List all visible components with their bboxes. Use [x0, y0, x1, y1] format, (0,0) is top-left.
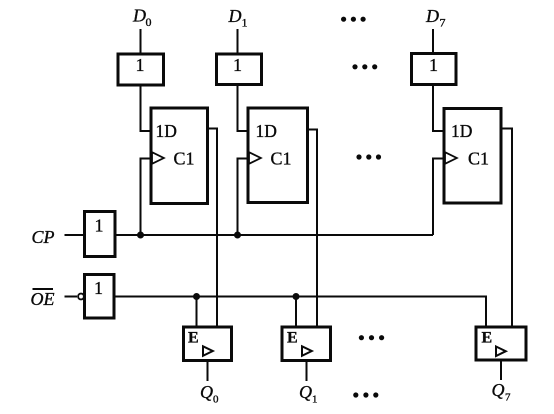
wire Q0 output — [207, 361, 209, 382]
svg-text:1: 1 — [312, 394, 318, 406]
ellipsis E-buffer row — [359, 335, 384, 340]
wire OE to E0 enable — [196, 297, 198, 328]
wire FF1 Q output to E buffer — [308, 130, 318, 328]
flip-flop FF1 — [248, 108, 308, 203]
ellipsis buffer row — [352, 64, 377, 69]
svg-text:C1: C1 — [271, 149, 292, 169]
ellipsis flip-flop row — [356, 154, 381, 159]
junction dot CP/FF1 clock — [234, 232, 241, 239]
svg-text:E: E — [482, 330, 493, 347]
clock edge triangle (FF7) — [445, 152, 457, 164]
triangle symbol (E0) — [203, 346, 213, 356]
svg-text:CP: CP — [32, 227, 55, 247]
wire D7 to buffer — [432, 29, 434, 55]
svg-text:Q: Q — [200, 382, 213, 402]
wire Q7 output — [500, 360, 502, 380]
flip-flop FF7 — [444, 109, 501, 204]
svg-text:1D: 1D — [156, 121, 177, 141]
buffer B1 "1" — [217, 54, 262, 85]
tri-state buffer E7 — [476, 327, 526, 360]
svg-text:C1: C1 — [174, 149, 195, 169]
svg-text:C1: C1 — [468, 149, 489, 169]
svg-text:1: 1 — [94, 278, 103, 298]
inverter bubble OE — [78, 294, 84, 300]
wire buffer1 output to 1D input — [238, 84, 250, 131]
buffer OE "1" — [85, 275, 115, 319]
clock edge triangle (FF1) — [249, 152, 261, 164]
node D0 — [132, 6, 152, 30]
wire buffer7 output to 1D input — [433, 84, 445, 131]
wire OE to E1 enable — [295, 297, 297, 328]
wire CP distribution line — [115, 234, 433, 236]
triangle symbol (E1) — [302, 346, 312, 356]
svg-text:1D: 1D — [256, 121, 277, 141]
triangle symbol (E7) — [496, 347, 506, 357]
svg-text:D: D — [425, 6, 439, 26]
svg-text:7: 7 — [440, 16, 446, 30]
svg-text:E: E — [287, 330, 298, 347]
flip-flop FF0 — [151, 108, 208, 204]
wire clock stub FF0 down to CP line — [141, 159, 152, 236]
wire clock stub FF7 (corner from CP line) — [433, 159, 444, 236]
wire FF7 Q output to E buffer — [501, 129, 512, 328]
buffer B7 "1" — [412, 54, 457, 85]
svg-text:1: 1 — [242, 16, 248, 30]
buffer CP "1" — [85, 212, 116, 257]
wire OE distribution line — [114, 297, 486, 328]
junction dot CP/FF0 clock — [137, 232, 144, 239]
svg-text:1: 1 — [429, 55, 438, 75]
wire D0 to buffer — [140, 29, 142, 55]
node Q0 — [200, 382, 219, 406]
svg-text:D: D — [228, 6, 242, 26]
svg-text:1D: 1D — [451, 121, 472, 141]
ellipsis Q row — [353, 392, 378, 397]
tri-state buffer E1 — [282, 327, 331, 361]
node OE (active low) — [31, 289, 55, 309]
junction dot OE/E1 — [293, 293, 300, 300]
wire FF0 Q output to E buffer — [208, 129, 218, 328]
svg-text:Q: Q — [299, 382, 312, 402]
buffer B0 "1" — [118, 54, 164, 85]
wire clock stub FF1 down to CP line — [238, 159, 249, 236]
svg-text:1: 1 — [95, 216, 104, 236]
svg-text:OE: OE — [31, 289, 55, 309]
wire OE input — [65, 296, 78, 298]
wire buffer0 output to 1D input — [141, 84, 153, 131]
node Q1 — [299, 382, 318, 406]
node D1 — [228, 6, 248, 30]
svg-text:D: D — [132, 6, 146, 26]
svg-text:Q: Q — [492, 380, 505, 400]
ellipsis top row — [341, 17, 366, 22]
node Q7 — [492, 380, 512, 404]
svg-text:7: 7 — [505, 392, 511, 404]
junction dot OE/E0 — [193, 293, 200, 300]
clock edge triangle (FF0) — [152, 152, 164, 164]
svg-text:1: 1 — [136, 55, 145, 75]
svg-text:1: 1 — [233, 55, 242, 75]
node D7 — [425, 6, 446, 30]
svg-text:E: E — [188, 330, 199, 347]
svg-text:0: 0 — [213, 394, 219, 406]
tri-state buffer E0 — [184, 327, 232, 361]
svg-text:0: 0 — [146, 15, 152, 29]
wire D1 to buffer — [237, 29, 239, 55]
wire Q1 output — [306, 361, 308, 382]
wire CP input — [65, 234, 86, 236]
